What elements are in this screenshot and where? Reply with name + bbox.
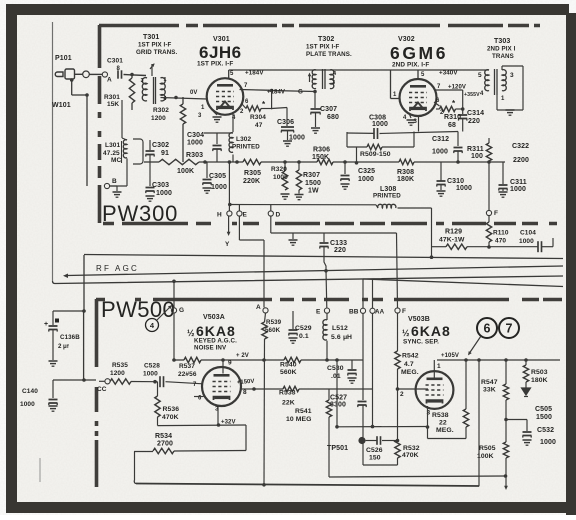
svg-text:1200: 1200 — [110, 370, 125, 377]
svg-text:1000: 1000 — [358, 176, 374, 183]
svg-text:R303: R303 — [186, 152, 203, 159]
svg-text:22#56: 22#56 — [178, 371, 197, 378]
svg-text:R532: R532 — [403, 445, 420, 452]
svg-text:C526: C526 — [366, 447, 383, 454]
svg-text:3: 3 — [332, 80, 335, 86]
svg-text:C301: C301 — [107, 58, 123, 65]
svg-text:8: 8 — [117, 66, 121, 72]
svg-text:E: E — [243, 212, 248, 219]
svg-text:180K: 180K — [397, 176, 414, 183]
svg-text:1000: 1000 — [372, 121, 388, 128]
svg-text:.01: .01 — [331, 373, 341, 380]
svg-text:f: f — [67, 344, 69, 350]
svg-text:H: H — [347, 334, 352, 341]
svg-text:22K: 22K — [282, 400, 295, 407]
svg-text:R308: R308 — [397, 169, 414, 176]
svg-text:220K: 220K — [243, 178, 260, 185]
svg-text:91: 91 — [161, 150, 169, 157]
svg-text:P101: P101 — [55, 55, 72, 62]
svg-text:L301: L301 — [105, 142, 121, 149]
svg-text:MC: MC — [111, 157, 122, 164]
svg-text:C528: C528 — [144, 363, 160, 370]
svg-text:H: H — [217, 212, 222, 219]
svg-text:C133: C133 — [330, 240, 347, 247]
svg-text:R305: R305 — [244, 170, 261, 177]
svg-text:C532: C532 — [537, 427, 554, 434]
svg-text:1ST PIX I-F: 1ST PIX I-F — [306, 44, 340, 51]
svg-text:3: 3 — [215, 406, 219, 413]
svg-text:C314: C314 — [467, 110, 484, 117]
svg-text:47.25: 47.25 — [103, 150, 120, 157]
svg-text:A: A — [107, 77, 112, 84]
svg-text:3: 3 — [510, 72, 514, 79]
svg-text:6: 6 — [245, 99, 249, 105]
svg-text:1000: 1000 — [456, 185, 472, 192]
svg-text:AA: AA — [375, 309, 385, 316]
svg-text:R533: R533 — [279, 390, 296, 397]
svg-text:G: G — [298, 89, 303, 96]
svg-text:3: 3 — [141, 78, 144, 84]
svg-text:10 MEG: 10 MEG — [286, 416, 312, 423]
svg-text:2ND PIX I: 2ND PIX I — [487, 46, 516, 53]
svg-text:1ST PIX. I-F: 1ST PIX. I-F — [197, 61, 233, 68]
svg-text:5.6: 5.6 — [331, 334, 341, 341]
svg-text:2700: 2700 — [157, 441, 173, 448]
svg-text:2: 2 — [240, 109, 244, 115]
svg-text:7: 7 — [244, 83, 248, 89]
svg-text:1000: 1000 — [156, 190, 172, 197]
svg-text:MEG.: MEG. — [436, 427, 454, 434]
svg-text:V302: V302 — [398, 36, 415, 43]
svg-text:68: 68 — [448, 122, 456, 129]
svg-text:SYNC. SEP.: SYNC. SEP. — [403, 339, 439, 346]
svg-text:1000: 1000 — [187, 140, 203, 147]
svg-text:TRANS: TRANS — [492, 53, 514, 60]
svg-text:R110: R110 — [493, 230, 509, 237]
svg-text:V503A: V503A — [203, 314, 225, 321]
svg-text:2200: 2200 — [513, 157, 529, 164]
svg-text:R302: R302 — [153, 107, 169, 114]
svg-text:B: B — [112, 178, 117, 185]
svg-text:R301: R301 — [104, 94, 120, 101]
svg-text:9: 9 — [228, 360, 232, 367]
svg-text:R537: R537 — [179, 363, 195, 370]
svg-text:3300: 3300 — [330, 402, 346, 409]
svg-text:G: G — [179, 307, 184, 314]
svg-text:C304: C304 — [187, 132, 204, 139]
svg-text:F: F — [494, 210, 498, 217]
svg-text:C307: C307 — [320, 106, 337, 113]
svg-text:V503B: V503B — [408, 316, 430, 323]
svg-text:6KA8: 6KA8 — [411, 323, 451, 339]
svg-text:4: 4 — [480, 91, 484, 97]
svg-text:E: E — [316, 309, 321, 316]
svg-text:5: 5 — [421, 72, 425, 78]
svg-text:1500: 1500 — [305, 180, 321, 187]
svg-text:V301: V301 — [213, 36, 230, 43]
svg-text:R542: R542 — [402, 353, 419, 360]
svg-text:+105V: +105V — [441, 353, 459, 359]
svg-text:R535: R535 — [112, 362, 128, 369]
svg-text:7: 7 — [437, 84, 441, 90]
svg-text:R540: R540 — [280, 362, 297, 369]
svg-text:100K: 100K — [177, 168, 194, 175]
svg-text:R320: R320 — [271, 166, 287, 173]
svg-text:R534: R534 — [155, 433, 172, 440]
svg-text:C310: C310 — [447, 178, 464, 185]
svg-text:½: ½ — [402, 328, 410, 338]
svg-text:1000: 1000 — [273, 174, 288, 181]
svg-text:R536: R536 — [163, 406, 180, 413]
svg-text:560K: 560K — [280, 369, 297, 376]
svg-text:2: 2 — [440, 110, 444, 116]
svg-text:C302: C302 — [152, 142, 169, 149]
svg-text:2: 2 — [58, 343, 62, 350]
svg-text:A: A — [256, 304, 261, 311]
svg-text:1000: 1000 — [20, 401, 35, 408]
svg-text:C325: C325 — [358, 168, 375, 175]
svg-text:C312: C312 — [432, 136, 449, 143]
svg-text:1W: 1W — [308, 188, 319, 195]
svg-text:R541: R541 — [295, 408, 312, 415]
svg-text:MEG.: MEG. — [401, 369, 419, 376]
svg-text:+120V: +120V — [448, 85, 466, 91]
svg-text:1: 1 — [393, 92, 397, 98]
svg-text:T303: T303 — [494, 38, 510, 45]
svg-text:RF AGC: RF AGC — [96, 264, 139, 273]
svg-text:½: ½ — [187, 328, 195, 338]
svg-text:C136B: C136B — [60, 334, 80, 341]
svg-text:R539: R539 — [266, 319, 282, 326]
svg-text:R547: R547 — [481, 379, 498, 386]
svg-text:100K: 100K — [477, 453, 494, 460]
svg-text:3: 3 — [198, 113, 202, 119]
svg-text:0.1: 0.1 — [299, 333, 309, 340]
svg-text:CC: CC — [97, 386, 107, 393]
svg-text:7: 7 — [193, 382, 197, 388]
svg-text:1ST PIX I-F: 1ST PIX I-F — [138, 42, 172, 49]
svg-text:2: 2 — [400, 391, 404, 398]
svg-text:R306: R306 — [313, 147, 330, 154]
svg-text:6GM6: 6GM6 — [390, 43, 448, 63]
svg-text:15K: 15K — [107, 101, 119, 108]
svg-text:TP501: TP501 — [327, 445, 348, 452]
svg-text:1: 1 — [437, 363, 441, 370]
svg-text:KEYED A.G.C.: KEYED A.G.C. — [194, 338, 237, 345]
svg-text:R538: R538 — [432, 412, 449, 419]
svg-text:47K-1W: 47K-1W — [439, 237, 465, 244]
svg-text:PW500: PW500 — [101, 297, 175, 322]
svg-text:+ 2V: + 2V — [236, 353, 249, 359]
svg-text:C527: C527 — [330, 395, 347, 402]
svg-text:4: 4 — [403, 115, 407, 121]
svg-text:R310: R310 — [444, 114, 461, 121]
svg-text:5: 5 — [230, 71, 234, 77]
svg-text:R304: R304 — [250, 114, 266, 121]
svg-text:1: 1 — [501, 96, 505, 102]
svg-text:7: 7 — [506, 322, 513, 336]
svg-text:220: 220 — [334, 247, 346, 254]
svg-text:R311: R311 — [467, 146, 484, 153]
svg-text:F: F — [402, 308, 406, 315]
svg-text:NOISE INV: NOISE INV — [194, 345, 227, 352]
svg-text:470K: 470K — [402, 452, 419, 459]
svg-text:C529: C529 — [295, 325, 312, 332]
svg-text:100: 100 — [471, 153, 483, 160]
svg-text:22: 22 — [439, 420, 447, 427]
svg-text:1: 1 — [201, 105, 205, 111]
svg-text:D: D — [276, 212, 281, 219]
svg-text:220: 220 — [468, 118, 480, 125]
svg-text:+184V: +184V — [267, 90, 285, 96]
svg-text:T301: T301 — [143, 34, 159, 41]
svg-text:C505: C505 — [535, 406, 552, 413]
svg-text:2ND PIX. I-F: 2ND PIX. I-F — [392, 62, 429, 69]
svg-text:R509-150: R509-150 — [360, 151, 391, 158]
svg-text:150: 150 — [369, 455, 381, 462]
svg-text:1000: 1000 — [143, 371, 158, 378]
svg-text:1000: 1000 — [540, 439, 556, 446]
svg-text:1000: 1000 — [211, 184, 227, 191]
svg-text:R503: R503 — [531, 369, 548, 376]
svg-text:R129: R129 — [445, 229, 462, 236]
svg-text:PRINTED: PRINTED — [373, 193, 401, 200]
svg-text:T302: T302 — [318, 36, 334, 43]
svg-text:R307: R307 — [303, 172, 320, 179]
svg-text:8: 8 — [243, 389, 247, 396]
svg-text:560K: 560K — [265, 327, 281, 334]
svg-text:0V: 0V — [190, 90, 198, 96]
svg-text:C140: C140 — [22, 388, 38, 395]
svg-text:33K: 33K — [483, 387, 496, 394]
svg-text:1000: 1000 — [519, 238, 534, 245]
svg-text:1500: 1500 — [536, 414, 552, 421]
svg-text:470K: 470K — [162, 414, 179, 421]
svg-text:W101: W101 — [52, 102, 71, 109]
svg-text:6JH6: 6JH6 — [199, 43, 242, 62]
svg-text:C104: C104 — [520, 230, 536, 237]
svg-text:PRINTED: PRINTED — [232, 144, 260, 151]
svg-text:470: 470 — [495, 238, 506, 245]
svg-text:C305: C305 — [209, 173, 226, 180]
svg-text:C306: C306 — [277, 119, 294, 126]
svg-text:PW300: PW300 — [102, 201, 178, 226]
svg-text:180K: 180K — [531, 377, 548, 384]
svg-text:C311: C311 — [510, 179, 527, 186]
svg-text:C303: C303 — [152, 182, 169, 189]
svg-text:Y: Y — [225, 241, 230, 248]
svg-text:47: 47 — [255, 122, 263, 129]
svg-text:L512: L512 — [332, 325, 348, 332]
svg-text:PLATE TRANS.: PLATE TRANS. — [306, 51, 352, 58]
svg-text:1000: 1000 — [289, 135, 305, 142]
svg-text:GRID TRANS.: GRID TRANS. — [136, 49, 177, 56]
svg-text:+340V: +340V — [439, 70, 458, 77]
svg-text:680: 680 — [327, 114, 339, 121]
svg-text:+: + — [44, 321, 48, 328]
svg-text:4.7: 4.7 — [404, 361, 414, 368]
svg-text:C322: C322 — [512, 143, 529, 150]
svg-text:R505: R505 — [479, 445, 496, 452]
svg-text:6: 6 — [436, 98, 440, 104]
svg-text:1: 1 — [164, 77, 167, 83]
svg-text:6: 6 — [484, 322, 491, 336]
svg-text:L302: L302 — [236, 136, 252, 143]
svg-text:+32V: +32V — [221, 420, 236, 426]
svg-text:BB: BB — [349, 309, 359, 316]
svg-text:+184V: +184V — [245, 70, 264, 77]
svg-text:C530: C530 — [327, 365, 344, 372]
svg-text:+150V: +150V — [237, 379, 255, 386]
svg-text:1000: 1000 — [510, 186, 526, 193]
svg-text:5: 5 — [478, 72, 482, 79]
svg-text:150K: 150K — [312, 154, 329, 161]
svg-text:+355V: +355V — [464, 92, 480, 98]
svg-text:1000: 1000 — [432, 149, 448, 156]
svg-text:1200: 1200 — [151, 115, 166, 122]
